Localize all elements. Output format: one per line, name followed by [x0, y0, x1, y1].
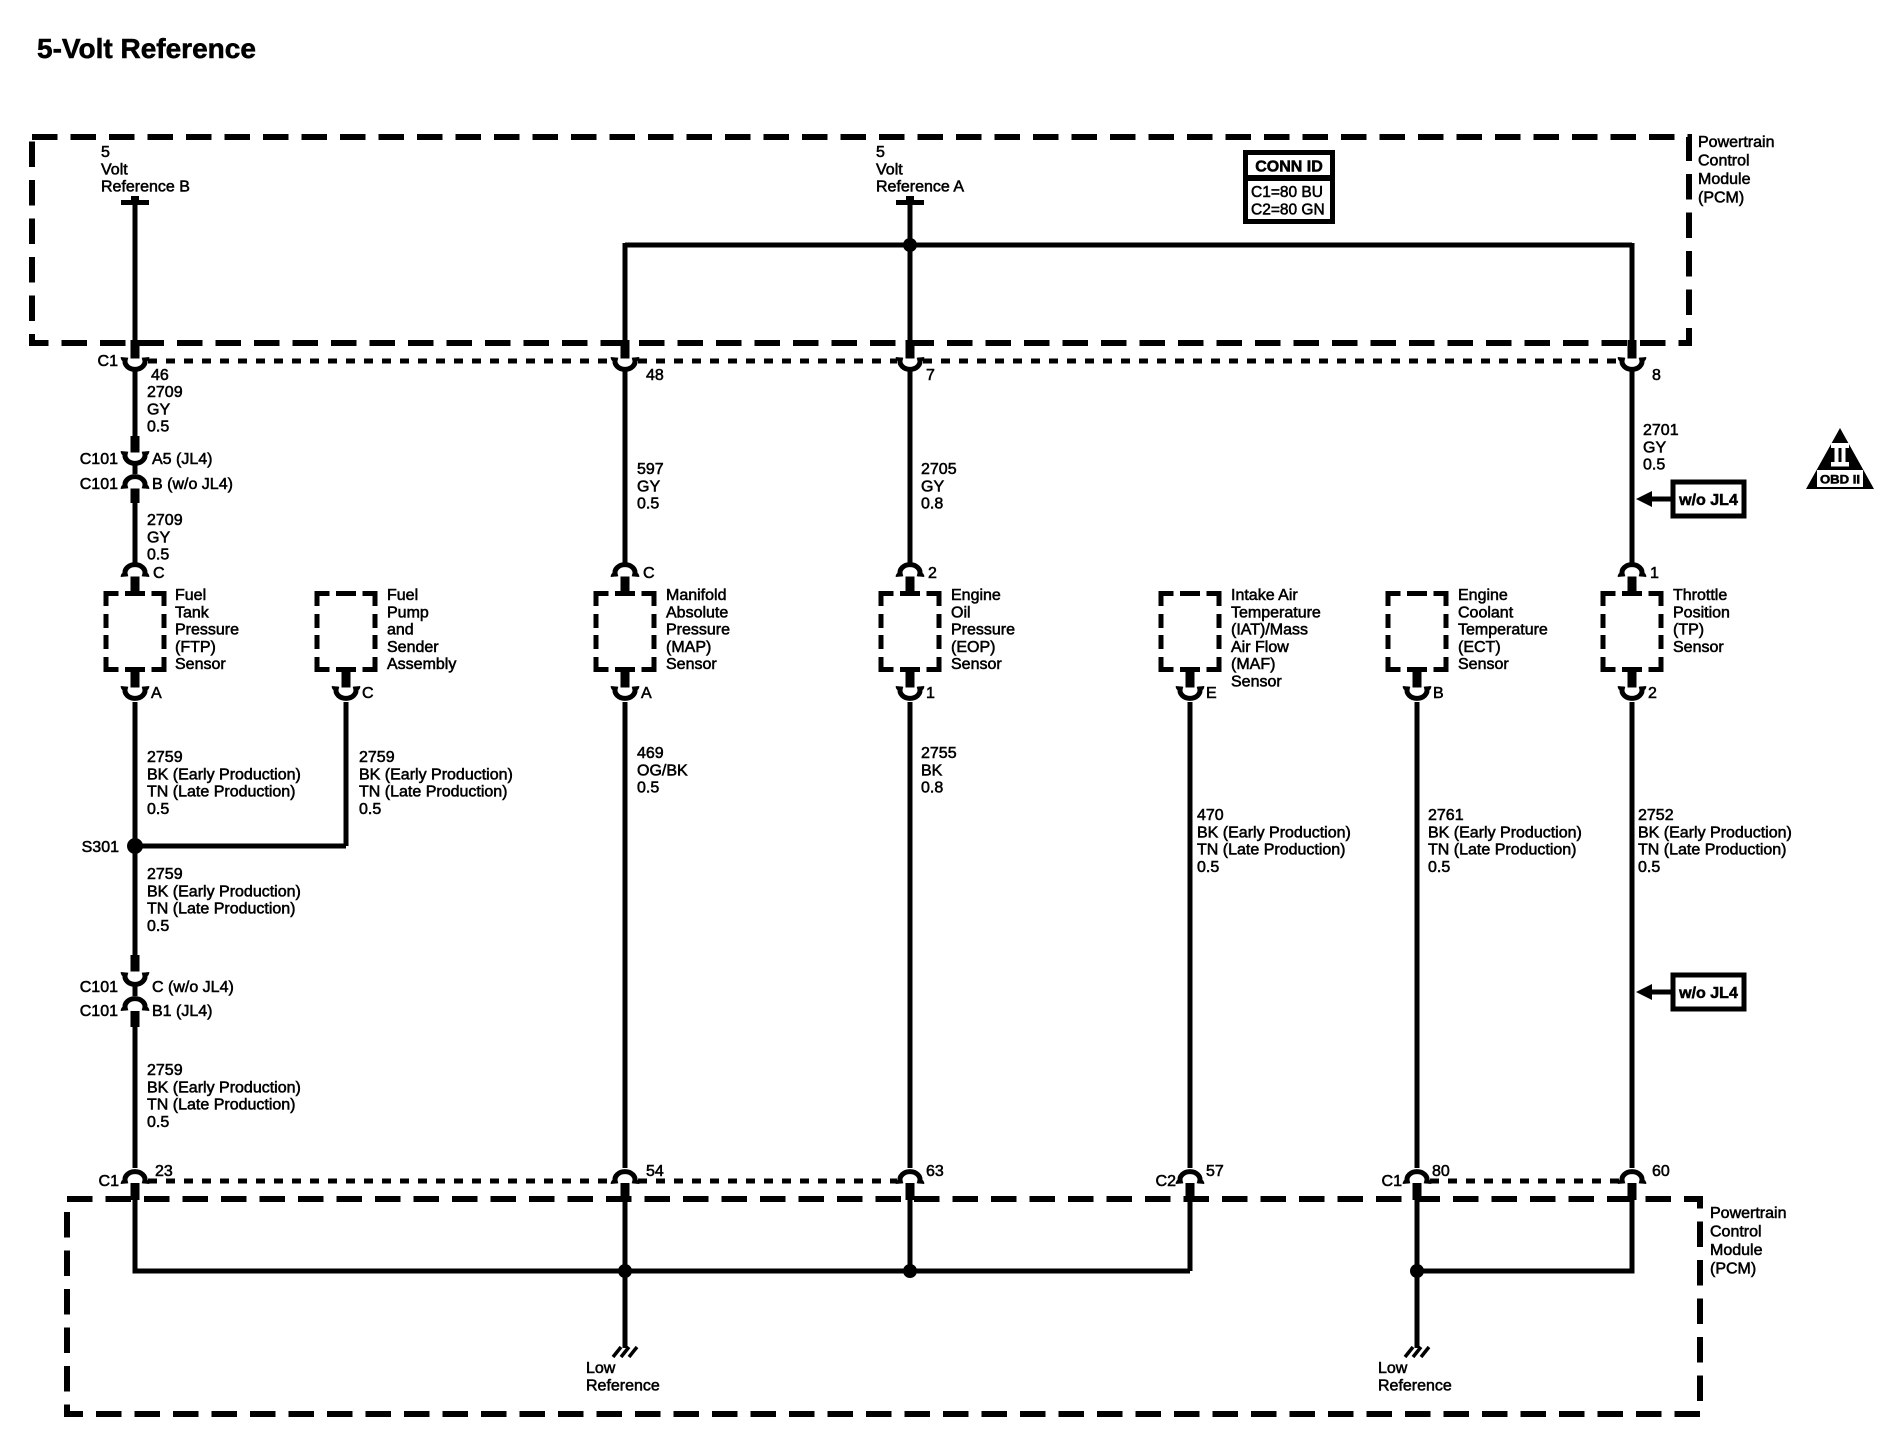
svg-text:Volt: Volt	[876, 161, 903, 178]
svg-text:Reference: Reference	[1378, 1377, 1452, 1394]
svg-text:23: 23	[155, 1163, 173, 1180]
svg-text:(PCM): (PCM)	[1698, 190, 1744, 207]
svg-text:Pump: Pump	[387, 604, 429, 621]
svg-text:470: 470	[1197, 807, 1224, 824]
svg-text:(MAP): (MAP)	[666, 639, 711, 656]
svg-text:Temperature: Temperature	[1231, 604, 1321, 621]
svg-text:8: 8	[1652, 367, 1661, 384]
svg-text:B (w/o JL4): B (w/o JL4)	[152, 476, 233, 493]
svg-text:E: E	[1206, 685, 1217, 702]
svg-text:TN (Late Production): TN (Late Production)	[1197, 842, 1346, 859]
svg-text:Sensor: Sensor	[1231, 674, 1282, 691]
svg-text:Temperature: Temperature	[1458, 622, 1548, 639]
svg-text:0.5: 0.5	[637, 780, 659, 797]
svg-text:57: 57	[1206, 1163, 1224, 1180]
svg-text:(ECT): (ECT)	[1458, 639, 1501, 656]
svg-text:2709: 2709	[147, 512, 183, 529]
svg-text:2759: 2759	[359, 749, 395, 766]
svg-text:Intake Air: Intake Air	[1231, 587, 1298, 604]
svg-text:Module: Module	[1698, 171, 1751, 188]
svg-text:Low: Low	[586, 1360, 616, 1377]
svg-text:TN (Late Production): TN (Late Production)	[1638, 842, 1787, 859]
svg-text:Control: Control	[1698, 153, 1750, 170]
svg-text:0.5: 0.5	[1643, 457, 1665, 474]
svg-text:Coolant: Coolant	[1458, 604, 1514, 621]
svg-text:5: 5	[101, 144, 110, 161]
svg-text:Module: Module	[1710, 1242, 1763, 1259]
svg-text:Sensor: Sensor	[951, 656, 1002, 673]
svg-text:Tank: Tank	[175, 604, 210, 621]
svg-text:2709: 2709	[147, 384, 183, 401]
svg-text:2759: 2759	[147, 866, 183, 883]
svg-text:0.5: 0.5	[147, 419, 169, 436]
svg-text:CONN ID: CONN ID	[1255, 159, 1323, 176]
svg-text:C: C	[362, 685, 374, 702]
svg-text:BK (Early Production): BK (Early Production)	[1197, 824, 1351, 841]
svg-text:2761: 2761	[1428, 807, 1464, 824]
svg-text:and: and	[387, 622, 414, 639]
svg-text:(PCM): (PCM)	[1710, 1261, 1756, 1278]
svg-text:C1: C1	[1382, 1173, 1403, 1190]
svg-text:TN (Late Production): TN (Late Production)	[147, 901, 296, 918]
svg-text:A5 (JL4): A5 (JL4)	[152, 451, 212, 468]
svg-text:GY: GY	[637, 478, 660, 495]
svg-text:5: 5	[876, 144, 885, 161]
svg-text:Volt: Volt	[101, 161, 128, 178]
svg-text:C2=80 GN: C2=80 GN	[1251, 202, 1325, 219]
svg-text:C101: C101	[80, 1003, 118, 1020]
svg-text:(TP): (TP)	[1673, 622, 1704, 639]
svg-text:C: C	[643, 565, 655, 582]
svg-text:GY: GY	[147, 529, 170, 546]
svg-text:S301: S301	[82, 839, 119, 856]
svg-text:0.5: 0.5	[1428, 859, 1450, 876]
svg-text:2759: 2759	[147, 1062, 183, 1079]
svg-text:TN (Late Production): TN (Late Production)	[1428, 842, 1577, 859]
svg-text:2755: 2755	[921, 745, 957, 762]
svg-text:Sensor: Sensor	[666, 656, 717, 673]
svg-text:Throttle: Throttle	[1673, 587, 1727, 604]
svg-text:Sensor: Sensor	[1458, 656, 1509, 673]
svg-text:C1: C1	[98, 353, 119, 370]
svg-text:Control: Control	[1710, 1224, 1762, 1241]
svg-text:0.5: 0.5	[147, 547, 169, 564]
svg-text:0.5: 0.5	[637, 496, 659, 513]
svg-text:0.5: 0.5	[1638, 859, 1660, 876]
svg-text:Assembly: Assembly	[387, 656, 456, 673]
svg-text:Sensor: Sensor	[1673, 639, 1724, 656]
svg-text:2: 2	[928, 565, 937, 582]
svg-text:C: C	[153, 565, 165, 582]
svg-text:Reference: Reference	[586, 1377, 660, 1394]
svg-text:0.5: 0.5	[359, 801, 381, 818]
svg-text:C (w/o JL4): C (w/o JL4)	[152, 979, 234, 996]
svg-text:46: 46	[151, 367, 169, 384]
svg-text:GY: GY	[147, 401, 170, 418]
svg-text:w/o JL4: w/o JL4	[1678, 985, 1738, 1002]
svg-text:0.8: 0.8	[921, 780, 943, 797]
svg-text:Position: Position	[1673, 604, 1730, 621]
svg-text:C1: C1	[99, 1173, 120, 1190]
svg-text:BK: BK	[921, 762, 943, 779]
svg-text:C1=80 BU: C1=80 BU	[1251, 184, 1323, 201]
svg-text:Powertrain: Powertrain	[1710, 1205, 1786, 1222]
svg-text:2: 2	[1648, 685, 1657, 702]
svg-text:Engine: Engine	[1458, 587, 1508, 604]
svg-text:48: 48	[646, 367, 664, 384]
svg-text:Sensor: Sensor	[175, 656, 226, 673]
svg-text:BK (Early Production): BK (Early Production)	[147, 766, 301, 783]
svg-text:2701: 2701	[1643, 422, 1679, 439]
svg-text:Pressure: Pressure	[666, 622, 730, 639]
svg-text:Oil: Oil	[951, 604, 971, 621]
svg-text:C101: C101	[80, 451, 118, 468]
svg-text:0.5: 0.5	[147, 918, 169, 935]
svg-text:1: 1	[926, 685, 935, 702]
svg-text:(EOP): (EOP)	[951, 639, 995, 656]
svg-text:C101: C101	[80, 979, 118, 996]
svg-text:Reference A: Reference A	[876, 179, 964, 196]
svg-text:54: 54	[646, 1163, 664, 1180]
svg-text:7: 7	[926, 367, 935, 384]
svg-text:Pressure: Pressure	[175, 622, 239, 639]
svg-text:2759: 2759	[147, 749, 183, 766]
svg-text:BK (Early Production): BK (Early Production)	[147, 1079, 301, 1096]
svg-text:2752: 2752	[1638, 807, 1674, 824]
svg-text:C2: C2	[1156, 1173, 1177, 1190]
svg-text:TN (Late Production): TN (Late Production)	[147, 784, 296, 801]
svg-text:TN (Late Production): TN (Late Production)	[147, 1097, 296, 1114]
svg-text:A: A	[641, 685, 652, 702]
svg-text:w/o JL4: w/o JL4	[1678, 492, 1738, 509]
svg-text:63: 63	[926, 1163, 944, 1180]
svg-text:(MAF): (MAF)	[1231, 656, 1275, 673]
svg-text:Engine: Engine	[951, 587, 1001, 604]
svg-text:OG/BK: OG/BK	[637, 762, 688, 779]
svg-text:OBD II: OBD II	[1820, 473, 1860, 487]
svg-text:Sender: Sender	[387, 639, 439, 656]
svg-text:Low: Low	[1378, 1360, 1408, 1377]
svg-text:B: B	[1433, 685, 1444, 702]
svg-text:1: 1	[1650, 565, 1659, 582]
svg-text:BK (Early Production): BK (Early Production)	[1638, 824, 1792, 841]
svg-text:2705: 2705	[921, 461, 957, 478]
svg-text:597: 597	[637, 461, 664, 478]
svg-text:(FTP): (FTP)	[175, 639, 216, 656]
svg-text:TN (Late Production): TN (Late Production)	[359, 784, 508, 801]
svg-text:60: 60	[1652, 1163, 1670, 1180]
svg-text:BK (Early Production): BK (Early Production)	[359, 766, 513, 783]
svg-text:BK (Early Production): BK (Early Production)	[147, 883, 301, 900]
svg-text:(IAT)/Mass: (IAT)/Mass	[1231, 622, 1308, 639]
svg-text:0.5: 0.5	[147, 1114, 169, 1131]
svg-text:80: 80	[1432, 1163, 1450, 1180]
svg-text:469: 469	[637, 745, 664, 762]
svg-text:Powertrain: Powertrain	[1698, 134, 1774, 151]
svg-text:Fuel: Fuel	[175, 587, 206, 604]
svg-text:BK (Early Production): BK (Early Production)	[1428, 824, 1582, 841]
svg-text:0.8: 0.8	[921, 496, 943, 513]
svg-text:Manifold: Manifold	[666, 587, 726, 604]
svg-text:GY: GY	[921, 478, 944, 495]
svg-text:Fuel: Fuel	[387, 587, 418, 604]
svg-text:Reference B: Reference B	[101, 179, 190, 196]
svg-text:Pressure: Pressure	[951, 622, 1015, 639]
svg-text:GY: GY	[1643, 439, 1666, 456]
svg-text:Air Flow: Air Flow	[1231, 639, 1289, 656]
svg-text:0.5: 0.5	[147, 801, 169, 818]
svg-text:B1 (JL4): B1 (JL4)	[152, 1003, 212, 1020]
svg-text:A: A	[151, 685, 162, 702]
svg-text:C101: C101	[80, 476, 118, 493]
svg-text:Absolute: Absolute	[666, 604, 728, 621]
svg-text:0.5: 0.5	[1197, 859, 1219, 876]
svg-text:5-Volt Reference: 5-Volt Reference	[37, 33, 256, 64]
